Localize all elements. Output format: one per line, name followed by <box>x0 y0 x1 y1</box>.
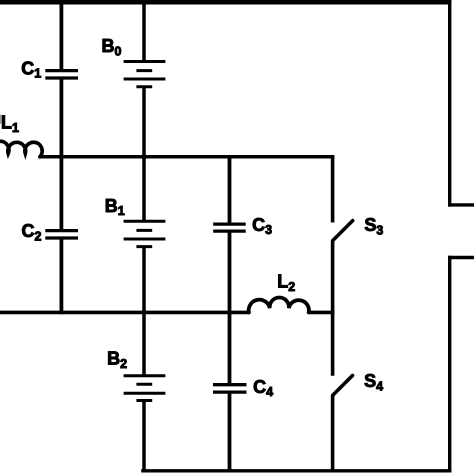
wire col D seg1 <box>331 155 335 223</box>
inductor L1 <box>0 141 42 157</box>
capacitor C4 <box>213 385 247 392</box>
capacitor C1 <box>45 71 78 78</box>
wire right terminal stub lower <box>448 256 474 259</box>
svg-text:C1: C1 <box>21 59 41 81</box>
wire right vertical upper <box>448 0 451 207</box>
svg-text:B2: B2 <box>107 349 127 371</box>
capacitor C3 <box>213 224 246 231</box>
wire top bus <box>0 0 451 4</box>
svg-text:C3: C3 <box>252 215 272 237</box>
svg-text:B1: B1 <box>105 196 125 218</box>
wire col A lower <box>60 238 64 314</box>
wire right vertical lower <box>448 256 451 473</box>
battery B0 <box>124 62 166 87</box>
battery B2 <box>124 376 166 401</box>
wire bottom bus <box>141 469 451 472</box>
wire col B seg1 <box>142 0 146 62</box>
svg-text:L2: L2 <box>277 272 295 294</box>
wire col C seg3 <box>228 392 232 472</box>
capacitor C2 <box>45 231 78 238</box>
wire row3 right <box>309 311 335 315</box>
wire col B seg3 <box>142 247 146 376</box>
wire row3 left <box>0 311 250 315</box>
svg-text:S3: S3 <box>364 215 383 237</box>
wire col A upper <box>60 0 64 71</box>
svg-text:B0: B0 <box>102 36 122 58</box>
inductor L2 <box>249 297 309 312</box>
wire col A middle <box>60 78 64 231</box>
svg-text:S4: S4 <box>364 371 383 393</box>
svg-text:C4: C4 <box>253 377 273 399</box>
switch S3 <box>333 221 353 241</box>
switch S4 <box>333 376 353 396</box>
wire col B seg4 <box>142 401 146 473</box>
clipped glyph artifact at left edge <box>0 115 1 124</box>
wire input bus row2 <box>39 155 335 159</box>
svg-text:L1: L1 <box>1 113 19 135</box>
wire col C seg2 <box>228 231 232 385</box>
wire col D seg2 <box>331 241 335 376</box>
battery B1 <box>124 221 166 246</box>
wire col C seg1 <box>228 155 232 224</box>
wire right terminal stub upper <box>448 203 474 206</box>
wire col D seg3 <box>331 395 335 473</box>
svg-text:C2: C2 <box>22 221 42 243</box>
wire col B seg2 <box>142 87 146 222</box>
